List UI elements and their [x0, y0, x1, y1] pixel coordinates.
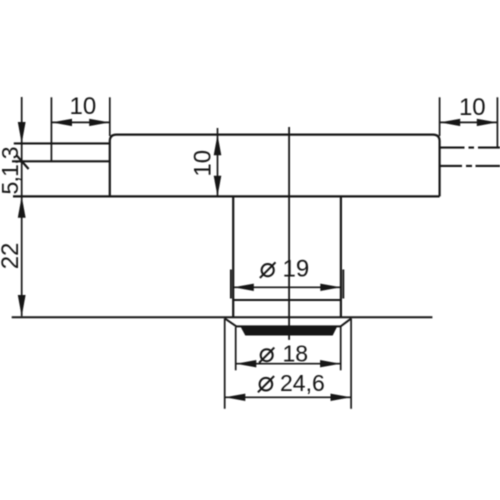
svg-text:10: 10: [459, 94, 486, 121]
svg-text:24,6: 24,6: [280, 370, 325, 396]
svg-text:22: 22: [0, 243, 24, 270]
top-right 10 dim: outer extension line: [496, 97, 498, 147]
cylinder left wall: [232, 196, 234, 317]
right tab bottom edge (solid then dash-dot continuation): [440, 165, 500, 167]
cylinder right wall: [340, 196, 342, 317]
dia symbol for 24,6: [260, 378, 273, 391]
top-right 10 dim line: [440, 121, 498, 123]
dia 18 dim: extension lines: [235, 327, 237, 370]
svg-text:19: 19: [283, 255, 310, 282]
left tab top edge: [14, 142, 110, 144]
body bottom edge extended left as extension line: [13, 195, 440, 197]
black cap (filled): [240, 326, 337, 335]
top-left 10 dim: extension line right (above body corner): [109, 97, 111, 136]
svg-text:10: 10: [70, 93, 97, 120]
flange chamfered sides and bottom: [225, 318, 351, 326]
arrow down to tab top: [18, 122, 26, 143]
arrow down to mounting line: [18, 295, 26, 316]
left tab bottom edge: [12, 160, 110, 162]
dia 19 short extension line right: [342, 270, 344, 299]
right tab top edge (solid then dash-dot continuation): [440, 147, 500, 149]
dia 19 short extension line left: [230, 270, 232, 299]
svg-text:10: 10: [190, 150, 217, 177]
body thickness 10 dim line (vertical, inside body): [217, 128, 219, 196]
dia symbol for 19: [262, 264, 274, 276]
dia 18 dim line: [236, 363, 341, 365]
left dimension stack vertical line: [21, 97, 23, 316]
centerline: [288, 127, 290, 340]
top-right 10 dim: extension above body right edge: [439, 97, 441, 136]
svg-text:5,1,3: 5,1,3: [0, 147, 23, 195]
top-left 10 dim: extension line left: [50, 97, 52, 161]
dia symbol for 18: [261, 349, 273, 361]
slash tick at tab bottom: [17, 156, 29, 169]
body outline (rounded top corners): [110, 135, 440, 197]
arrow up to body bottom: [18, 196, 26, 217]
cylinder step line: [233, 299, 341, 301]
dia 19 dim line: [233, 286, 341, 288]
svg-text:18: 18: [283, 341, 309, 367]
dia 24,6 dim: extension lines: [224, 318, 226, 408]
dia 24,6 dim line: [225, 396, 351, 398]
mounting plane line: [12, 316, 433, 318]
top-left 10 dim line: [51, 121, 109, 123]
